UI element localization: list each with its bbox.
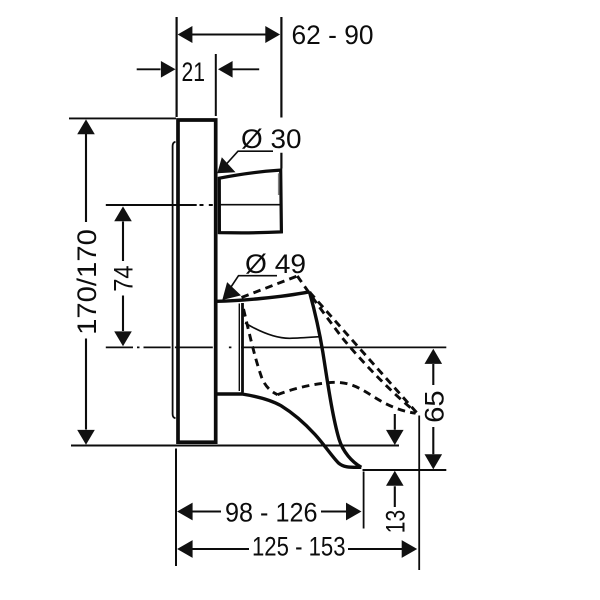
arrow 125-153 right bbox=[402, 540, 418, 558]
svg-text:98 - 126: 98 - 126 bbox=[225, 497, 318, 527]
arrow 21 right (points left) bbox=[218, 61, 233, 78]
dashed spout front edge from apex bbox=[297, 276, 416, 413]
dashed flange-side curve bbox=[244, 309, 278, 395]
arrow 170/170 up bbox=[77, 119, 95, 134]
svg-text:65: 65 bbox=[420, 390, 450, 423]
spout flange front thick line bbox=[241, 303, 244, 393]
left bottom extension line bbox=[175, 449, 177, 567]
dim 13 shafts bbox=[394, 414, 396, 507]
main centerline bbox=[106, 346, 232, 348]
dim 98-126 shafts bbox=[192, 511, 347, 513]
svg-text:125 - 153: 125 - 153 bbox=[252, 532, 346, 562]
spout top edge bbox=[217, 292, 310, 302]
leader line D30 bbox=[221, 151, 273, 170]
arrow 125-153 left bbox=[177, 540, 193, 558]
svg-text:13: 13 bbox=[380, 510, 410, 533]
arrow 13 up bbox=[386, 471, 404, 486]
dim 21 shafts bbox=[137, 68, 260, 70]
leader arrowhead D49 bbox=[222, 282, 241, 300]
handle centerline bbox=[106, 204, 197, 206]
arrow 170/170 down bbox=[77, 430, 95, 445]
handle body bbox=[219, 170, 281, 233]
dashed tip extension line bbox=[418, 416, 420, 571]
extension line C (plate front) bbox=[215, 54, 217, 116]
dim 170/170 shafts bbox=[85, 133, 87, 430]
svg-text:21: 21 bbox=[182, 57, 206, 87]
back flange behind plate bbox=[173, 142, 176, 419]
svg-text:62 - 90: 62 - 90 bbox=[292, 20, 374, 50]
arrow 65 up bbox=[425, 349, 443, 364]
extension line B (handle front) bbox=[280, 17, 282, 169]
leader line D49 bbox=[225, 276, 277, 296]
leader arrowhead D30 bbox=[217, 157, 235, 173]
arrow 74 up bbox=[114, 206, 132, 221]
dashed spout (raised position) top edge bbox=[242, 276, 298, 298]
spout front edge bbox=[310, 292, 362, 468]
dashed line corner to tip bbox=[310, 292, 417, 413]
dim 74 shafts bbox=[122, 222, 124, 332]
spout inner curve bbox=[245, 323, 322, 338]
arrow 62-90 left bbox=[178, 26, 193, 43]
wall plate (escutcheon, side view) bbox=[178, 120, 216, 442]
svg-text:170/170: 170/170 bbox=[72, 229, 102, 335]
svg-text:Ø 30: Ø 30 bbox=[241, 124, 302, 154]
bottom reference line y445 bbox=[71, 445, 399, 447]
solid tip extension line bbox=[363, 472, 365, 529]
top reference line 170/170 bbox=[69, 117, 176, 119]
dashed spout bottom sweep bbox=[278, 382, 416, 413]
svg-text:74: 74 bbox=[108, 266, 138, 292]
svg-text:Ø 49: Ø 49 bbox=[245, 249, 306, 279]
arrow 98-126 left bbox=[177, 503, 193, 521]
spout flange front thin line bbox=[238, 304, 240, 392]
arrow 13 down bbox=[386, 430, 404, 445]
arrow 98-126 right bbox=[346, 503, 362, 521]
arrow 74 down bbox=[114, 331, 132, 346]
dim 65 shafts bbox=[432, 364, 434, 454]
arrow 21 left (points right) bbox=[161, 61, 176, 78]
tip reference line y470 bbox=[363, 469, 447, 471]
dim 125-153 shafts bbox=[192, 548, 402, 550]
handle parting line bbox=[220, 204, 281, 206]
dim 62-90 line bbox=[190, 34, 267, 36]
handle edge highlight (gray tick) bbox=[278, 173, 280, 195]
arrow 65 down bbox=[425, 454, 443, 469]
spout bottom edge bbox=[217, 394, 362, 467]
arrow 62-90 right bbox=[265, 26, 280, 43]
extension line A (wall face) bbox=[176, 17, 178, 117]
